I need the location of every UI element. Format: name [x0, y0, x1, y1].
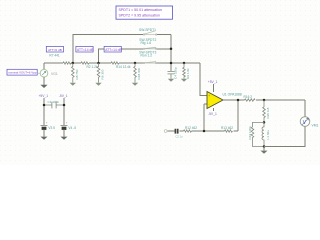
op-amp U1 OPA1688	[200, 92, 242, 109]
ground below C4	[168, 79, 174, 82]
voltmeter VM1	[300, 117, 318, 128]
battery V4	[61, 121, 77, 137]
node D junction x171 row2	[170, 48, 173, 51]
svg-text:ATT=14 dB: ATT=14 dB	[105, 48, 122, 52]
node C1 right junction	[63, 104, 66, 107]
switch SW-SPDT2 Rlg 1-6	[139, 38, 157, 50]
resistor R8 (shunt at node A)	[72, 63, 79, 83]
op-amp +5V_1 supply pin	[208, 80, 218, 92]
resistor R9 (shunt at x184)	[183, 63, 190, 79]
annotation box ATT=14 dB (first)	[76, 46, 94, 52]
svg-text:R20 6.8: R20 6.8	[266, 107, 270, 118]
resistor R20 (series in load chain)	[263, 100, 270, 122]
switch SW-SPDT1	[139, 28, 157, 35]
annotation box SPDT attenuation note	[116, 6, 173, 19]
battery V3	[41, 121, 56, 137]
svg-text:R19 100k: R19 100k	[248, 126, 252, 140]
ground below VG1	[40, 77, 47, 88]
svg-text:nominal VOUT=6 Vpp: nominal VOUT=6 Vpp	[8, 71, 37, 75]
node inverting input junction	[203, 130, 206, 133]
net label -5V_1 (supply section)	[59, 94, 68, 98]
resistor R12	[184, 126, 198, 132]
node D junction x171 main	[170, 62, 173, 65]
ground below R18	[132, 83, 138, 86]
wire ladder main rail y63	[44, 62, 200, 64]
svg-text:V3 5: V3 5	[48, 126, 55, 130]
svg-text:R14 12.4k: R14 12.4k	[116, 65, 131, 69]
capacitor C2 (dark, on feedback rail)	[175, 129, 183, 139]
wire row1 riser and top branch	[73, 35, 171, 64]
resistor R13	[221, 126, 233, 132]
svg-text:-5V_1: -5V_1	[59, 94, 68, 98]
resistor R6 (shunt at node B)	[97, 63, 104, 83]
resistor R14	[111, 62, 131, 69]
svg-text:C1 100n: C1 100n	[48, 100, 60, 104]
svg-text:-5V_1: -5V_1	[208, 112, 217, 116]
wire row2 riser and branch	[99, 49, 172, 63]
svg-text:Rlg 1-6: Rlg 1-6	[141, 41, 152, 45]
svg-text:R16 2: R16 2	[244, 95, 253, 99]
svg-text:R6 300: R6 300	[101, 69, 105, 79]
wire right bus x171	[170, 35, 172, 71]
wire to op-amp non-inverting input	[200, 63, 207, 96]
annotation box ATT=6 dB	[46, 46, 63, 52]
svg-text:U1 OPA1688: U1 OPA1688	[223, 93, 242, 97]
svg-text:+: +	[46, 121, 48, 125]
net label +5V_1 (supply section)	[39, 94, 49, 98]
node C junction	[134, 62, 137, 65]
capacitor C1 100n	[44, 100, 64, 108]
node A junction	[72, 62, 75, 65]
ground below V3	[41, 137, 48, 140]
resistor R16	[244, 95, 256, 101]
svg-text:ATT=6 dB: ATT=6 dB	[48, 48, 62, 52]
switch SW-SPDT3 Ron 1.2	[139, 50, 157, 63]
source VG1	[37, 63, 58, 85]
node chain bottom junction	[263, 145, 266, 148]
node feedback output junction	[237, 99, 240, 102]
ground below load chain	[261, 147, 268, 154]
wire feedback riser	[237, 100, 239, 131]
wire inverting input drop	[203, 104, 205, 131]
svg-text:R2 1.2k: R2 1.2k	[87, 65, 98, 69]
svg-text:Ron 1.2: Ron 1.2	[141, 54, 153, 58]
wire load loop to voltmeter	[264, 100, 305, 147]
wire supply right branch	[63, 98, 65, 125]
ground below R6	[95, 83, 101, 86]
node chain mid junction	[263, 121, 266, 124]
node output load junction	[263, 99, 266, 102]
svg-text:-: -	[208, 103, 209, 107]
svg-text:R13 462: R13 462	[221, 126, 233, 130]
ground below R9	[181, 79, 187, 82]
svg-text:R9 1.8k: R9 1.8k	[186, 68, 190, 79]
svg-text:SPDT1 = 50.01 attenuation: SPDT1 = 50.01 attenuation	[119, 8, 162, 12]
capacitor C4 (shunt at x171)	[168, 67, 178, 79]
svg-text:VM1: VM1	[312, 124, 319, 128]
svg-text:L1 36u: L1 36u	[266, 130, 270, 140]
svg-text:SPDT2 = 9.95 attenuation: SPDT2 = 9.95 attenuation	[119, 14, 160, 18]
svg-text:+5V_1: +5V_1	[39, 94, 49, 98]
svg-text:ATT=14 dB: ATT=14 dB	[77, 48, 94, 52]
inductor L1	[262, 122, 270, 146]
wire supply left branch	[43, 98, 45, 125]
annotation box ATT=14 dB (second)	[104, 46, 122, 52]
svg-text:R8 750: R8 750	[75, 69, 79, 79]
resistor R2	[81, 62, 98, 69]
svg-text:R18 300: R18 300	[137, 68, 141, 80]
svg-text:R7 441: R7 441	[49, 54, 60, 58]
svg-text:V4 -5: V4 -5	[68, 126, 76, 130]
node C1 left junction	[43, 104, 46, 107]
svg-text:VG1: VG1	[51, 72, 58, 76]
annotation box nominal VOUT	[7, 69, 37, 75]
svg-text:+: +	[208, 94, 210, 98]
op-amp -5V_1 supply pin	[208, 108, 217, 116]
wire feedback bottom rail	[167, 130, 238, 132]
svg-text:C4 150p: C4 150p	[174, 67, 178, 79]
svg-text:+: +	[66, 121, 68, 125]
svg-text:+5V_1: +5V_1	[208, 80, 218, 84]
resistor R18 (shunt at node C)	[134, 63, 141, 83]
node E junction x184	[183, 62, 186, 65]
reference pin (small circle) at feedback left end	[164, 130, 167, 133]
ground below V4	[61, 137, 68, 140]
wire op-amp output	[223, 99, 305, 101]
ground below R8	[70, 83, 76, 86]
resistor R19 (parallel with L1)	[248, 122, 264, 146]
node B junction	[97, 62, 100, 65]
resistor R7	[49, 54, 71, 65]
svg-text:C2 1u: C2 1u	[176, 135, 183, 139]
